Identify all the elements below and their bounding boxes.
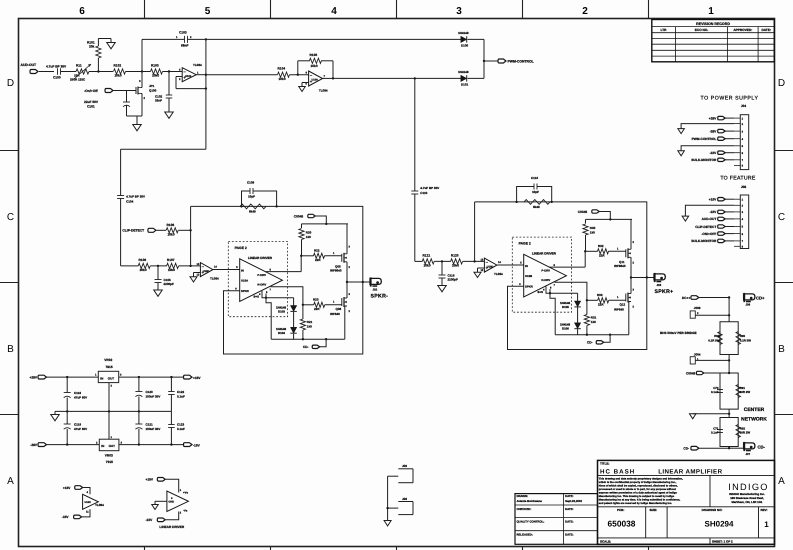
svg-text:1k0: 1k0 — [307, 324, 312, 328]
svg-text:R104: R104 — [278, 67, 286, 71]
svg-text:IRF9640: IRF9640 — [330, 269, 342, 273]
svg-text:IRF9640: IRF9640 — [614, 264, 626, 268]
capacitor C110 — [411, 78, 439, 261]
capacitor C103 — [142, 31, 207, 72]
svg-text:C0045: C0045 — [294, 215, 304, 219]
connector J08 body — [734, 195, 749, 249]
capacitor C104 — [117, 149, 145, 266]
connector J04 body — [734, 115, 749, 170]
jumper J008 — [690, 306, 730, 318]
svg-text:Sept.26,2002: Sept.26,2002 — [565, 499, 582, 503]
header TO POWER SUPPLY J04 — [701, 95, 759, 108]
svg-text:APPROVED:: APPROVED: — [733, 28, 752, 32]
svg-text:+15V: +15V — [193, 376, 201, 380]
svg-text:-On/+Off: -On/+Off — [84, 89, 99, 93]
resistor R31 — [584, 300, 596, 334]
drawing number — [702, 508, 734, 529]
regulator VR02 — [95, 358, 184, 411]
svg-text:0.1R 5W: 0.1R 5W — [708, 338, 720, 342]
svg-text:BHS 500uV PER BRIDGE: BHS 500uV PER BRIDGE — [660, 331, 697, 335]
svg-text:PAGE 2: PAGE 2 — [519, 242, 531, 246]
svg-text:7: 7 — [742, 240, 744, 243]
wire gate rail upper — [302, 223, 349, 225]
svg-text:2: 2 — [742, 205, 744, 208]
svg-text:VR03: VR03 — [105, 454, 113, 458]
connector +15V — [709, 198, 734, 202]
svg-text:OUT: OUT — [109, 444, 116, 448]
svg-text:U10B: U10B — [525, 274, 532, 278]
capacitor C122 — [168, 377, 185, 411]
wire — [728, 409, 730, 417]
junction — [441, 260, 443, 262]
svg-text:Jolanta Bolchwana: Jolanta Bolchwana — [517, 499, 543, 503]
pcb number — [608, 508, 636, 529]
svg-text:1: 1 — [708, 6, 714, 17]
svg-text:+15V: +15V — [709, 198, 717, 202]
svg-text:0.1uF: 0.1uF — [177, 394, 185, 398]
zone numbers top — [79, 6, 714, 17]
svg-text:4.7uF BP 35V: 4.7uF BP 35V — [46, 65, 67, 69]
svg-text:CD-: CD- — [587, 341, 593, 345]
op-amp U100B — [306, 71, 335, 93]
wire N-DRV — [271, 287, 303, 305]
svg-text:BULK-MONITOR: BULK-MONITOR — [691, 239, 717, 243]
svg-text:DATE:: DATE: — [761, 28, 771, 32]
svg-text:QUALITY CONTROL:: QUALITY CONTROL: — [517, 519, 545, 523]
svg-text:C100: C100 — [53, 76, 61, 80]
svg-text:CHECKED:: CHECKED: — [517, 507, 532, 511]
resistor R22 — [302, 248, 342, 262]
scale row — [600, 540, 733, 544]
svg-text:2: 2 — [190, 36, 192, 39]
svg-text:1: 1 — [617, 248, 619, 251]
svg-text:C71: C71 — [713, 426, 719, 430]
svg-text:2: 2 — [349, 310, 351, 313]
revision record table — [652, 20, 775, 62]
wire feedback U100A — [176, 77, 207, 90]
svg-text:which is the confidential prop: which is the confidential property of In… — [599, 481, 677, 484]
svg-text:47uF 50V: 47uF 50V — [74, 395, 87, 399]
svg-text:JP1: JP1 — [149, 84, 155, 88]
connector DC++ — [682, 296, 730, 300]
svg-text:C103: C103 — [179, 31, 187, 35]
svg-text:1: 1 — [176, 36, 178, 39]
svg-text:TO POWER SUPPLY: TO POWER SUPPLY — [701, 95, 759, 101]
svg-text:REV:: REV: — [761, 508, 768, 512]
connector C0045 src — [686, 371, 729, 375]
svg-text:R30: R30 — [590, 226, 596, 230]
jumper J004 — [690, 352, 729, 364]
transistor Q11 — [614, 219, 635, 277]
resistor R33 — [587, 293, 626, 306]
zone ticks right — [775, 151, 793, 415]
svg-text:C: C — [778, 212, 785, 223]
svg-text:3: 3 — [139, 79, 141, 83]
capacitor C119 — [64, 411, 87, 444]
svg-text:12: 12 — [197, 274, 200, 277]
svg-text:VR02: VR02 — [104, 358, 112, 362]
resistor R102 — [98, 64, 142, 78]
svg-text:6: 6 — [742, 152, 744, 155]
svg-text:R107: R107 — [167, 258, 175, 262]
junction — [297, 74, 299, 76]
svg-text:TITLE:: TITLE: — [600, 461, 609, 465]
svg-text:R11: R11 — [76, 64, 82, 68]
wire P-DRV — [265, 256, 301, 272]
svg-text:R92: R92 — [740, 426, 746, 430]
svg-text:B: B — [7, 344, 14, 355]
svg-text:J06: J06 — [746, 302, 751, 306]
svg-text:-Vs: -Vs — [183, 509, 188, 513]
junction — [66, 376, 173, 378]
svg-text:10k0: 10k0 — [168, 233, 175, 237]
transistor Q06 — [330, 282, 351, 339]
svg-text:10k0: 10k0 — [424, 264, 431, 268]
svg-text:22R: 22R — [598, 302, 604, 306]
svg-text:7: 7 — [324, 75, 326, 78]
svg-text:None of which shall be copied,: None of which shall be copied, reproduce… — [599, 484, 678, 487]
svg-text:CENTER: CENTER — [744, 407, 765, 413]
svg-text:2: 2 — [633, 306, 635, 309]
junction — [473, 260, 475, 262]
svg-text:+28V: +28V — [709, 116, 717, 120]
svg-text:U100: U100 — [85, 501, 92, 504]
svg-text:U10D: U10D — [487, 266, 494, 269]
svg-text:2: 2 — [742, 123, 744, 126]
svg-text:C109: C109 — [247, 181, 255, 185]
svg-text:1k0: 1k0 — [591, 320, 596, 324]
svg-text:INDIGO: INDIGO — [728, 482, 768, 492]
capacitor C118 — [64, 377, 87, 411]
ground — [299, 83, 309, 92]
connector C0045 upper — [578, 210, 612, 221]
resistor R104 — [206, 67, 309, 81]
capacitor C100 — [46, 65, 76, 80]
drawn table — [515, 494, 598, 545]
junction — [300, 255, 302, 257]
svg-text:R91: R91 — [740, 386, 746, 390]
header TO FEATURE J08 — [720, 176, 756, 190]
svg-text:PWM-CONTROL: PWM-CONTROL — [508, 60, 534, 64]
diode D104 — [276, 327, 297, 339]
ground — [438, 286, 447, 292]
svg-text:22uF 50V: 22uF 50V — [84, 100, 99, 104]
connector -On/+Off — [84, 89, 136, 94]
size cell — [650, 508, 658, 512]
op-amp U10C — [481, 258, 524, 276]
svg-text:LTR: LTR — [661, 28, 668, 32]
svg-text:22R: 22R — [314, 307, 320, 311]
connector BULK-MONITOR — [691, 158, 734, 162]
svg-text:10pF: 10pF — [532, 190, 539, 194]
connector CD+ J06 — [744, 293, 765, 306]
svg-text:IN: IN — [241, 269, 244, 273]
svg-text:D101: D101 — [461, 83, 469, 87]
svg-text:9: 9 — [235, 288, 237, 291]
svg-text:R105: R105 — [310, 53, 318, 57]
wire mid rail — [55, 410, 171, 412]
svg-text:4: 4 — [331, 6, 337, 17]
ground — [51, 411, 60, 420]
junction — [414, 77, 416, 79]
svg-text:4: 4 — [87, 491, 89, 494]
svg-text:CD-: CD- — [758, 445, 766, 450]
svg-text:IN: IN — [100, 376, 103, 380]
svg-text:C104: C104 — [126, 199, 134, 203]
svg-text:D: D — [7, 78, 14, 89]
wire output node — [347, 281, 370, 283]
svg-text:R08: R08 — [714, 334, 720, 338]
svg-text:6: 6 — [742, 233, 744, 236]
wire bottom rail — [555, 334, 629, 336]
svg-text:7915: 7915 — [106, 460, 113, 464]
svg-text:R20: R20 — [306, 231, 312, 235]
resistor R120 — [451, 253, 485, 267]
diode D100 — [458, 31, 484, 48]
svg-text:SPKR+: SPKR+ — [655, 289, 674, 295]
svg-text:J07: J07 — [746, 452, 751, 456]
transistor Q05 — [330, 224, 351, 282]
diode D105 — [560, 293, 581, 323]
capacitor C120 — [135, 377, 160, 411]
resistor R107 — [167, 258, 201, 272]
connector -15V — [710, 210, 734, 214]
wire bottom rail — [271, 338, 345, 340]
svg-text:J02: J02 — [373, 288, 378, 292]
svg-text:CLIP-DETECT: CLIP-DETECT — [695, 225, 716, 229]
capacitor C70 — [711, 373, 729, 409]
svg-text:R09: R09 — [740, 334, 746, 338]
svg-text:U100: U100 — [185, 75, 192, 78]
op-amp power U100 — [62, 486, 104, 520]
svg-text:10k0: 10k0 — [140, 268, 147, 272]
svg-text:10k0: 10k0 — [452, 264, 459, 268]
svg-text:PWM-CONTROL: PWM-CONTROL — [692, 137, 717, 141]
wire — [97, 58, 99, 72]
svg-text:10k0: 10k0 — [311, 64, 318, 68]
wire output node — [631, 276, 654, 278]
svg-text:AUD-OUT: AUD-OUT — [702, 217, 717, 221]
svg-text:LINEAR DRIVER: LINEAR DRIVER — [159, 525, 184, 529]
dashed block PAGE 2 — [228, 242, 287, 317]
resistor R20 — [299, 224, 312, 256]
svg-text:7: 7 — [270, 288, 272, 291]
wire P-DRV — [549, 251, 585, 267]
svg-text:1: 1 — [95, 374, 97, 377]
svg-text:250R 125C: 250R 125C — [70, 78, 86, 82]
junction — [630, 276, 632, 278]
svg-text:2: 2 — [179, 78, 181, 81]
svg-text:C101: C101 — [87, 105, 95, 109]
revision cell — [761, 508, 770, 529]
svg-text:+15V: +15V — [146, 478, 154, 482]
svg-text:2: 2 — [111, 385, 113, 388]
svg-text:J06: J06 — [402, 497, 407, 501]
resistor R32 — [586, 244, 626, 258]
svg-text:1N4148: 1N4148 — [458, 31, 469, 35]
svg-text:10R 2W: 10R 2W — [740, 431, 751, 435]
resistor R26 — [240, 204, 266, 214]
svg-text:1: 1 — [617, 296, 619, 299]
driver block U10A — [235, 256, 282, 301]
svg-text:5: 5 — [520, 262, 522, 265]
svg-text:7: 7 — [554, 284, 556, 287]
connector -15V — [710, 151, 734, 155]
svg-text:2: 2 — [697, 312, 699, 315]
svg-text:C116: C116 — [531, 176, 538, 180]
regulator VR03 — [96, 411, 184, 464]
svg-text:11: 11 — [86, 511, 89, 514]
capacitor C101 — [84, 91, 142, 117]
svg-text:3: 3 — [742, 130, 744, 133]
junction — [168, 70, 170, 72]
svg-text:LINEAR DRIVER: LINEAR DRIVER — [532, 252, 557, 256]
jumper J06 — [388, 497, 413, 515]
svg-text:9: 9 — [519, 283, 521, 286]
svg-text:PCB:: PCB: — [617, 508, 624, 512]
svg-text:J04: J04 — [741, 104, 747, 108]
junction — [586, 299, 588, 301]
connector CD- J07 — [729, 442, 765, 456]
svg-text:6: 6 — [306, 72, 308, 75]
svg-text:TL084: TL084 — [95, 503, 104, 507]
wire B+S — [262, 291, 294, 339]
logo INDIGO — [728, 482, 768, 504]
svg-text:+15V: +15V — [63, 486, 71, 490]
svg-text:SPKR: SPKR — [525, 285, 533, 289]
svg-text:Q06: Q06 — [336, 307, 342, 311]
ground — [678, 124, 734, 134]
resistor R101 — [87, 39, 111, 59]
svg-text:TL084: TL084 — [319, 89, 328, 93]
svg-text:PAGE 2: PAGE 2 — [235, 246, 247, 250]
svg-text:TL084: TL084 — [210, 277, 219, 281]
wire — [386, 476, 388, 520]
svg-text:R33: R33 — [597, 293, 603, 297]
resistor R121 — [415, 253, 451, 267]
svg-text:express written permission of: express written permission of a duly aut… — [599, 492, 678, 495]
svg-text:100uF 35V: 100uF 35V — [146, 427, 161, 431]
svg-text:0.1R 5W: 0.1R 5W — [740, 338, 752, 342]
capacitor C116 — [515, 176, 553, 203]
svg-text:B: B — [778, 344, 785, 355]
resistor R103 — [142, 64, 178, 78]
svg-text:GND: GND — [168, 501, 174, 504]
wire bus — [474, 202, 476, 262]
svg-text:LINEAR AMPLIFIER: LINEAR AMPLIFIER — [658, 469, 722, 476]
svg-text:-ON/+OFF: -ON/+OFF — [701, 232, 716, 236]
svg-text:CD-: CD- — [303, 345, 309, 349]
ground — [190, 273, 200, 283]
svg-text:AUD-OUT: AUD-OUT — [21, 63, 38, 67]
svg-text:6k49: 6k49 — [249, 210, 256, 214]
svg-text:SPKR-: SPKR- — [371, 293, 389, 299]
svg-text:U100: U100 — [312, 79, 319, 82]
junction — [346, 281, 348, 283]
transistor Q100 JFET — [136, 72, 157, 117]
svg-text:D105: D105 — [562, 305, 569, 309]
wire B+S — [546, 287, 578, 335]
svg-text:R103: R103 — [151, 64, 159, 68]
svg-text:1: 1 — [111, 436, 113, 439]
junction — [584, 250, 586, 252]
svg-text:DRAWN:: DRAWN: — [517, 494, 529, 498]
svg-text:1k0: 1k0 — [590, 231, 595, 235]
resistor R09 — [729, 322, 751, 355]
svg-text:3: 3 — [120, 374, 122, 377]
connector PWM-CONTROL in — [692, 137, 734, 141]
svg-text:20k: 20k — [89, 45, 95, 49]
svg-text:4: 4 — [259, 293, 261, 296]
capacitor C115 — [439, 261, 459, 285]
svg-text:OUT: OUT — [108, 376, 115, 380]
svg-text:1: 1 — [333, 252, 335, 255]
svg-text:8: 8 — [554, 264, 556, 267]
svg-text:7815: 7815 — [106, 365, 113, 369]
svg-text:Q12: Q12 — [620, 302, 626, 306]
svg-text:P-DRV: P-DRV — [541, 269, 550, 273]
capacitor C102 — [155, 72, 172, 113]
resistor R106 — [121, 258, 167, 272]
svg-text:6: 6 — [79, 6, 85, 17]
svg-text:C0045: C0045 — [686, 371, 696, 375]
svg-text:D100: D100 — [461, 44, 469, 48]
op-amp U100A — [178, 63, 206, 82]
svg-text:processed or used in whole or: processed or used in whole or in part, f… — [599, 488, 676, 491]
resistor R105 — [298, 53, 333, 79]
svg-text:-15V: -15V — [146, 518, 154, 522]
svg-text:3: 3 — [633, 289, 635, 292]
ground — [133, 116, 142, 131]
connector -28V — [710, 129, 734, 133]
svg-text:REVISION RECORD: REVISION RECORD — [696, 22, 730, 26]
resistor R91 — [729, 373, 750, 409]
svg-text:ECO NO.: ECO NO. — [695, 28, 709, 32]
svg-text:C110: C110 — [420, 191, 427, 195]
connector -15V out — [184, 443, 201, 448]
svg-text:U10D: U10D — [203, 270, 210, 273]
connector CD- sense — [587, 335, 610, 345]
svg-text:SCALE:: SCALE: — [600, 540, 611, 544]
svg-text:P-DRV: P-DRV — [257, 273, 266, 277]
ground — [689, 414, 729, 419]
svg-text:DATE:: DATE: — [565, 519, 573, 523]
svg-text:R22: R22 — [314, 248, 320, 252]
junction — [205, 74, 207, 76]
svg-text:2: 2 — [582, 6, 588, 17]
resistor R108 — [166, 223, 192, 237]
svg-text:10pF: 10pF — [248, 195, 255, 199]
svg-text:A: A — [7, 476, 14, 487]
svg-text:DRAWING NO:: DRAWING NO: — [702, 508, 723, 512]
capacitor C123 — [168, 411, 185, 444]
svg-text:D103: D103 — [278, 309, 285, 313]
connector -28V in — [30, 443, 99, 447]
junction — [66, 443, 173, 445]
svg-text:3: 3 — [742, 211, 744, 214]
svg-text:CD+: CD+ — [756, 296, 765, 301]
junction — [157, 265, 159, 267]
svg-text:3: 3 — [349, 245, 351, 248]
svg-text:4: 4 — [171, 497, 173, 500]
wire — [728, 355, 730, 375]
capacitor C121 — [135, 411, 160, 444]
connector BULK-MONITOR 2 — [691, 239, 734, 243]
svg-text:1N4148: 1N4148 — [458, 70, 469, 74]
svg-text:2200pF: 2200pF — [164, 282, 175, 286]
svg-text:-15V: -15V — [193, 443, 201, 447]
connector C0045 upper — [294, 214, 328, 225]
